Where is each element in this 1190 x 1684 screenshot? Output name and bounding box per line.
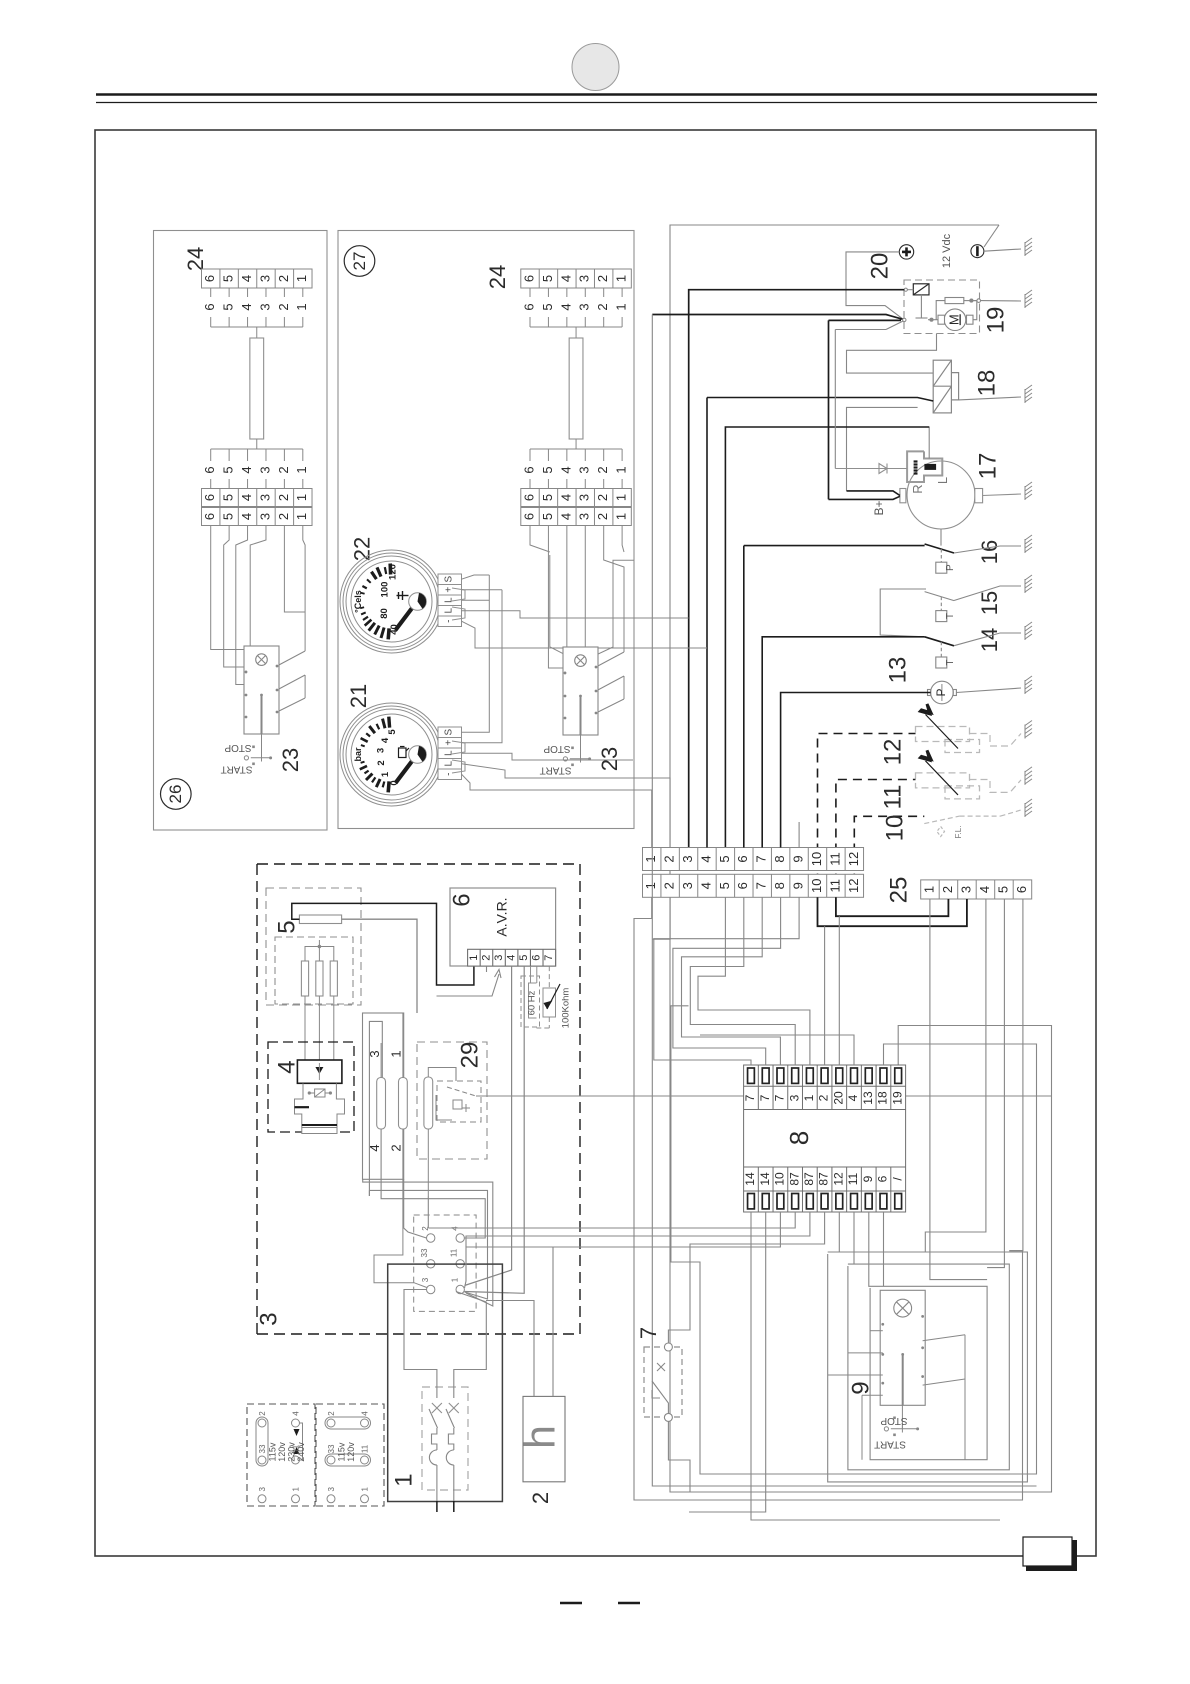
fuse resistor box5	[299, 915, 341, 924]
svg-text:2: 2	[662, 855, 677, 862]
switch 16 oil pressure contact arm	[925, 544, 954, 553]
wire relay 18 switched (black)	[707, 398, 933, 402]
voltage selection box B	[316, 1404, 384, 1506]
label 26 (circled)	[161, 779, 192, 810]
svg-text:2: 2	[595, 303, 610, 310]
wire 29 aux	[441, 1068, 456, 1082]
svg-text:120: 120	[388, 564, 399, 580]
svg-text:100Kohm: 100Kohm	[561, 988, 572, 1029]
winding capsule 1-2	[399, 1078, 408, 1130]
glow plug 12a arrow	[920, 704, 958, 749]
wire stubs upper box27	[530, 288, 622, 338]
wire winding wrap outer	[363, 1179, 493, 1306]
svg-text:12 Vdc: 12 Vdc	[941, 233, 953, 268]
svg-text:33: 33	[258, 1444, 267, 1453]
svg-text:6: 6	[521, 466, 536, 473]
svg-text:3: 3	[958, 886, 973, 893]
svg-text:13: 13	[884, 657, 911, 684]
wire pin b6 down	[883, 1212, 885, 1286]
svg-text:60 Hz: 60 Hz	[527, 990, 538, 1015]
svg-text:h: h	[516, 1425, 564, 1449]
svg-text:17: 17	[974, 453, 1001, 480]
wire loop C switch9	[828, 1212, 1028, 1482]
svg-text:25: 25	[885, 877, 912, 904]
svg-text:7: 7	[636, 1327, 661, 1339]
wire glow plug 12b lead (dashed black)	[836, 780, 916, 898]
alternator brush pack	[907, 451, 942, 482]
ground 16	[1025, 535, 1032, 553]
wire glow plug 12a to ground	[970, 734, 1022, 747]
svg-text:5: 5	[221, 494, 236, 501]
wire loop B switch9	[848, 1212, 1009, 1470]
connector block 8	[744, 1065, 906, 1212]
key position marks 23 box26	[244, 734, 271, 765]
thyristor symbol	[308, 1089, 331, 1097]
voltage terminals B	[325, 1417, 371, 1503]
svg-text:5: 5	[221, 303, 236, 310]
wire strip cell6 up (black to switch 16)	[743, 546, 745, 848]
svg-text:4: 4	[292, 1411, 301, 1416]
svg-text:6: 6	[202, 275, 217, 282]
svg-text:87: 87	[802, 1172, 816, 1186]
svg-text:1: 1	[614, 303, 629, 310]
wire battery positive	[846, 252, 903, 320]
wire 15 to ground	[954, 586, 1021, 601]
svg-text:3: 3	[327, 1487, 336, 1492]
svg-text:11: 11	[879, 785, 906, 810]
svg-text:3: 3	[421, 1277, 430, 1282]
terminal strip 12-pole row2	[643, 874, 864, 897]
wire 25-4 down	[925, 899, 986, 1252]
wires AVR pins 4-5 down	[465, 966, 525, 1293]
svg-text:240v: 240v	[296, 1442, 306, 1462]
voltage labels B	[327, 1411, 370, 1492]
wire starter-alternator cable verticals	[829, 320, 836, 499]
dashed box 4	[268, 1042, 354, 1132]
svg-text:26: 26	[166, 785, 185, 804]
ground F.L.	[1025, 799, 1032, 817]
fuel level switch F.L.	[924, 810, 1021, 837]
wire battery negative to ground	[984, 249, 1021, 251]
svg-text:2: 2	[528, 1492, 553, 1504]
svg-text:1: 1	[388, 1050, 403, 1057]
svg-text:6: 6	[448, 893, 475, 906]
svg-text:3: 3	[258, 1487, 267, 1492]
starter control terminal	[904, 288, 913, 291]
svg-text:4: 4	[506, 955, 518, 961]
svg-text:2: 2	[276, 275, 291, 282]
svg-text:F.L.: F.L.	[954, 826, 963, 839]
wire 25-6 down	[1009, 899, 1023, 1251]
svg-text:2: 2	[258, 1411, 267, 1416]
svg-text:4: 4	[239, 513, 254, 520]
svg-text:13: 13	[861, 1091, 875, 1105]
gauge 21 needle	[396, 757, 416, 784]
wire stair cell5 to pin5	[698, 898, 810, 1066]
wire strip11 to 25-2 (black)	[836, 897, 949, 916]
ground glow plug 12b	[1025, 767, 1032, 785]
wire pin b5 down	[466, 1212, 810, 1247]
svg-text:3: 3	[255, 1312, 282, 1325]
wire AVR pin2 stub	[486, 966, 488, 972]
wires box26 strip to switch 23	[211, 526, 305, 713]
svg-text:9: 9	[791, 855, 806, 862]
svg-text:3: 3	[680, 855, 695, 862]
svg-text:40: 40	[389, 624, 400, 635]
svg-text:8: 8	[784, 1131, 814, 1145]
svg-text:9: 9	[861, 1175, 875, 1182]
switch stem 9 engine start	[902, 1354, 904, 1405]
svg-text:2: 2	[595, 494, 610, 501]
svg-text:P: P	[934, 688, 948, 696]
wire strip cell8 up (black to sender 13)	[781, 693, 931, 848]
svg-text:3: 3	[493, 955, 505, 961]
switch contacts 23 box26	[245, 665, 279, 719]
svg-text:L: L	[444, 607, 455, 613]
svg-text:4: 4	[239, 466, 254, 473]
wire glow plug 12a lead (dashed black)	[818, 734, 916, 898]
wire 13 to ground	[956, 688, 1021, 693]
alternator B+ terminal	[900, 489, 906, 503]
svg-text:4: 4	[273, 1060, 300, 1073]
svg-text:4: 4	[558, 466, 573, 473]
gauge 22 scale ticks	[360, 564, 390, 640]
wire 16 to ground	[954, 546, 1021, 553]
wire pin b3 down (to hour meter)	[553, 1212, 780, 1247]
wire fuse to AVR pin1	[292, 903, 474, 985]
wire B+ cable (black)	[829, 491, 900, 500]
svg-text:3: 3	[577, 275, 592, 282]
switch contacts 23 box27	[564, 666, 598, 720]
svg-text:3: 3	[577, 513, 592, 520]
wire cell3 long loop to pin18	[671, 1006, 1037, 1474]
svg-text:3: 3	[257, 303, 272, 310]
svg-text:3: 3	[577, 303, 592, 310]
svg-text:2: 2	[327, 1411, 336, 1416]
wire 29 switch to right	[476, 1095, 1052, 1097]
wire stair cell8 to pin2	[673, 898, 781, 1066]
dashed enclosure 3	[257, 864, 580, 1334]
indicator lamp 23 box26	[256, 654, 268, 666]
ground battery	[1025, 238, 1032, 256]
svg-text:6: 6	[876, 1175, 890, 1182]
svg-text:14: 14	[758, 1172, 772, 1186]
svg-text:2: 2	[276, 494, 291, 501]
svg-text:1: 1	[614, 275, 629, 282]
svg-text:2: 2	[276, 303, 291, 310]
svg-text:3: 3	[257, 275, 272, 282]
svg-text:L: L	[444, 750, 455, 756]
svg-text:1: 1	[294, 494, 309, 501]
svg-text:1: 1	[614, 494, 629, 501]
wire into circle 2	[404, 1179, 427, 1238]
svg-text:7: 7	[543, 955, 555, 961]
switch 16 oil pressure sensor box	[936, 549, 947, 573]
AVR box 6	[450, 888, 556, 966]
svg-text:5: 5	[540, 275, 555, 282]
svg-text:4: 4	[846, 1094, 860, 1101]
svg-text:L: L	[444, 760, 455, 766]
svg-text:S: S	[444, 729, 455, 736]
svg-text:3: 3	[577, 466, 592, 473]
wires gauge 22 strip	[462, 575, 634, 648]
svg-text:8: 8	[772, 882, 787, 889]
svg-text:24: 24	[183, 247, 208, 271]
field winding of exciter	[295, 1083, 345, 1133]
svg-text:1: 1	[294, 275, 309, 282]
svg-text:L: L	[935, 477, 950, 484]
svg-text:6: 6	[521, 494, 536, 501]
wire box27 exits join	[633, 618, 707, 648]
pin slots 8 top	[748, 1068, 902, 1083]
wire starter main cable	[652, 315, 906, 330]
gauge 21 hub	[409, 746, 427, 764]
potentiometer 100Kohm	[537, 966, 561, 1028]
wire excitation (black, from strip cell5)	[725, 427, 929, 848]
outer ground loop wire	[670, 225, 1052, 1492]
svg-text:1: 1	[294, 513, 309, 520]
gauge 22 hub	[409, 593, 427, 611]
gauge 22 terminal strip	[438, 574, 462, 627]
svg-text:33: 33	[327, 1444, 336, 1453]
svg-text:4: 4	[558, 275, 573, 282]
key position marks 9	[884, 1405, 918, 1436]
svg-text:5: 5	[518, 955, 530, 961]
svg-text:5: 5	[540, 494, 555, 501]
svg-text:0: 0	[389, 780, 400, 785]
terminal strip 25	[921, 880, 1032, 899]
svg-text:5: 5	[540, 303, 555, 310]
winding capsule 3-4	[377, 1078, 386, 1130]
svg-text:4: 4	[977, 886, 992, 893]
svg-text:2: 2	[595, 275, 610, 282]
pin labels 8 bottom	[743, 1172, 904, 1186]
svg-text:1: 1	[294, 303, 309, 310]
svg-text:19: 19	[982, 307, 1009, 334]
exciter winding leads	[428, 1068, 441, 1197]
stator frame	[363, 1013, 404, 1196]
svg-text:5: 5	[995, 886, 1010, 893]
svg-text:10: 10	[809, 852, 824, 866]
svg-text:2: 2	[817, 1094, 831, 1101]
pin slots 8 bottom	[748, 1194, 902, 1209]
ground starter coil	[1025, 290, 1032, 308]
wire stair cell7 to pin3	[682, 898, 781, 1066]
svg-text:12: 12	[846, 879, 861, 893]
svg-text:6: 6	[202, 494, 217, 501]
wire strip cell7 up (black to switch 14)	[762, 637, 924, 848]
wire cell2 jog	[652, 898, 670, 940]
svg-text:4: 4	[558, 513, 573, 520]
svg-text:5: 5	[221, 466, 236, 473]
connector 24 box27 upper strip	[521, 269, 632, 288]
svg-text:5: 5	[540, 466, 555, 473]
svg-text:4: 4	[239, 275, 254, 282]
alternator diode	[835, 464, 907, 474]
wire strip cell9 stub	[798, 822, 800, 848]
svg-text:T: T	[945, 613, 956, 619]
svg-text:1: 1	[921, 886, 936, 893]
svg-text:4: 4	[698, 855, 713, 862]
breaker poles dashed box	[422, 1387, 468, 1490]
svg-text:5: 5	[221, 513, 236, 520]
wire exciter lead down	[427, 1196, 429, 1228]
wire main rail left	[652, 315, 1036, 1487]
svg-text:S: S	[444, 576, 455, 583]
svg-text:6: 6	[521, 513, 536, 520]
ground 13	[1025, 676, 1032, 694]
terminal strip 12-pole row1	[643, 848, 864, 871]
starter motor M	[916, 295, 977, 331]
svg-text:START: START	[874, 1438, 906, 1449]
svg-text:2: 2	[376, 760, 387, 765]
svg-text:11: 11	[827, 852, 842, 866]
svg-text:3: 3	[367, 1050, 382, 1057]
main border	[95, 130, 1096, 1556]
svg-text:M: M	[947, 314, 962, 325]
60 Hz link box	[521, 966, 540, 1027]
cable sheath box27	[569, 338, 583, 439]
svg-text:bar: bar	[353, 747, 363, 762]
wire pin b1 down	[751, 1212, 1000, 1520]
wire strip10 to 25-3 (black)	[818, 897, 967, 926]
svg-text:3: 3	[257, 494, 272, 501]
wire stair cell6 to pin4	[690, 898, 795, 1066]
svg-text:11: 11	[827, 879, 842, 893]
svg-text:12: 12	[831, 1172, 845, 1186]
indicator lamp 23 box27	[575, 655, 587, 667]
svg-text:4: 4	[380, 737, 391, 743]
wire 25-1 down	[930, 899, 987, 1280]
wires resistor tops	[305, 940, 334, 961]
voltage labels A	[258, 1411, 306, 1492]
switch 15 temperature contact arm	[925, 592, 954, 601]
svg-text:2: 2	[480, 955, 492, 961]
svg-text:6: 6	[521, 275, 536, 282]
svg-text:3: 3	[577, 494, 592, 501]
gauge 22 needle	[396, 604, 416, 631]
svg-text:START: START	[221, 763, 253, 774]
terminal circles output	[414, 1215, 476, 1311]
bottom-right revision box	[1023, 1537, 1077, 1569]
svg-text:2: 2	[388, 1144, 403, 1151]
hour meter 2	[523, 1396, 565, 1481]
wire excitation to brush pack	[928, 427, 930, 459]
svg-text:9: 9	[791, 882, 806, 889]
svg-text:24: 24	[485, 265, 510, 289]
svg-text:STOP: STOP	[543, 743, 570, 754]
wire 14 to ground	[954, 633, 1021, 646]
svg-text:2: 2	[276, 513, 291, 520]
svg-text:L: L	[444, 597, 455, 603]
key switch block 23 box27	[563, 647, 598, 735]
svg-text:5: 5	[221, 275, 236, 282]
switch stem 23 box26	[261, 695, 263, 734]
svg-text:15: 15	[977, 591, 1002, 615]
svg-text:4: 4	[361, 1411, 370, 1416]
terminal strip row1 box26	[202, 489, 313, 507]
svg-text:6: 6	[735, 855, 750, 862]
svg-text:16: 16	[977, 540, 1002, 564]
svg-text:18: 18	[973, 370, 1000, 397]
svg-text:1: 1	[380, 771, 391, 777]
svg-text:23: 23	[597, 747, 622, 771]
gauge 21 terminal strip	[438, 727, 462, 780]
svg-text:1: 1	[390, 1473, 417, 1486]
wire fuse output	[342, 919, 417, 1013]
svg-text:4: 4	[367, 1144, 382, 1151]
wire cell3 to pin18 nested	[688, 897, 690, 899]
pressure sender 13	[928, 681, 957, 704]
svg-text:1: 1	[614, 466, 629, 473]
svg-text:B+: B+	[872, 500, 886, 515]
svg-text:14: 14	[977, 628, 1002, 652]
svg-text:P: P	[945, 564, 956, 571]
starter solenoid contact	[913, 284, 929, 295]
svg-text:7: 7	[754, 882, 769, 889]
svg-text:27: 27	[350, 252, 369, 271]
svg-text:21: 21	[346, 684, 371, 708]
svg-text:6: 6	[202, 466, 217, 473]
logo circle	[572, 44, 619, 91]
wires resistor bottoms to rectifier	[305, 996, 334, 1060]
svg-text:6: 6	[735, 882, 750, 889]
svg-text:6: 6	[531, 955, 543, 961]
wire cell1 down loop	[634, 898, 1023, 1501]
dashed resistor sub-box	[275, 937, 353, 1004]
svg-text:29: 29	[456, 1042, 483, 1069]
terminal strip row2 box27	[521, 508, 632, 526]
thermal switch 29	[436, 1081, 481, 1122]
battery 20 negative terminal	[971, 245, 984, 258]
svg-text:8: 8	[772, 855, 787, 862]
svg-text:3: 3	[257, 466, 272, 473]
wire loop A switch9	[869, 1212, 987, 1460]
svg-text:115v: 115v	[267, 1442, 277, 1461]
dashed box 29	[417, 1042, 487, 1159]
indicator lamp 9 engine start	[894, 1299, 912, 1317]
svg-text:12: 12	[846, 852, 861, 866]
wire stubs lower box27	[530, 439, 622, 489]
gauge 21 oil can icon	[399, 747, 410, 758]
winding leads	[374, 1013, 427, 1288]
battery 20 positive terminal	[899, 245, 913, 259]
svg-text:3: 3	[787, 1094, 801, 1101]
wire relay 18 to ground	[959, 397, 1021, 400]
wire pin6 up	[824, 926, 826, 1065]
relay 18 body	[933, 360, 958, 413]
svg-text:6: 6	[202, 303, 217, 310]
wire stubs upper box26	[211, 288, 303, 338]
exciter winding capsule	[424, 1077, 433, 1129]
key position marks 23 box27	[563, 735, 590, 766]
terminal labels	[420, 1226, 460, 1283]
svg-text:+: +	[444, 740, 455, 746]
svg-text:115v: 115v	[336, 1442, 346, 1461]
wires box27 strip to switch 23	[530, 526, 634, 714]
svg-text:5: 5	[273, 920, 300, 933]
svg-text:4: 4	[558, 303, 573, 310]
cable sheath box26	[250, 338, 264, 439]
svg-text:120v: 120v	[346, 1442, 356, 1462]
ground 14	[1025, 622, 1032, 640]
rectifier block 4	[297, 1060, 342, 1083]
voltage terminals A	[256, 1417, 303, 1503]
terminal strip row2 box26	[202, 508, 313, 526]
svg-text:1: 1	[294, 466, 309, 473]
wire pin8 up	[700, 1035, 854, 1065]
svg-text:R: R	[910, 484, 925, 493]
